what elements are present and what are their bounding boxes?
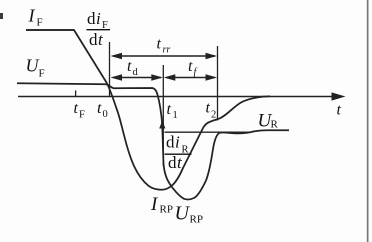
svg-text:t: t <box>74 100 79 117</box>
boundary line at t0 <box>109 42 111 96</box>
svg-text:1: 1 <box>173 110 178 121</box>
UR level line <box>165 131 250 133</box>
svg-text:d: d <box>87 9 96 28</box>
fraction diF/dt <box>87 9 111 49</box>
svg-text:RP: RP <box>190 214 203 226</box>
svg-text:RP: RP <box>160 204 173 216</box>
svg-text:d: d <box>168 153 177 172</box>
svg-text:d: d <box>166 133 175 152</box>
current waveform <box>26 30 270 190</box>
svg-text:F: F <box>39 68 45 80</box>
svg-text:i: i <box>96 9 101 28</box>
time axis <box>18 96 334 98</box>
boundary line at t2 <box>217 46 219 121</box>
td dimension arrow <box>113 77 161 79</box>
svg-text:U: U <box>175 203 191 225</box>
svg-text:t: t <box>188 58 193 75</box>
svg-text:U: U <box>26 56 40 76</box>
svg-text:rr: rr <box>163 45 171 56</box>
voltage waveform <box>17 83 289 199</box>
svg-text:2: 2 <box>211 110 216 121</box>
right page border line <box>367 0 369 242</box>
svg-text:t: t <box>167 101 172 118</box>
svg-text:t: t <box>127 58 132 75</box>
svg-text:R: R <box>271 119 279 131</box>
trr dimension arrow <box>113 55 215 57</box>
boundary line at t1 <box>162 65 164 166</box>
svg-text:I: I <box>28 6 36 26</box>
svg-text:t: t <box>206 100 211 117</box>
svg-text:0: 0 <box>103 109 108 120</box>
svg-text:t: t <box>97 100 102 117</box>
left edge printing mark <box>0 13 3 19</box>
svg-text:i: i <box>175 133 180 152</box>
svg-text:d: d <box>89 30 98 49</box>
IF level line <box>26 29 74 31</box>
svg-text:F: F <box>37 17 43 29</box>
svg-text:t: t <box>157 36 162 53</box>
up arrowhead on t1 line <box>159 121 165 129</box>
svg-text:t: t <box>337 102 342 119</box>
tick tF <box>75 91 77 97</box>
axis arrowhead <box>332 92 346 100</box>
svg-text:F: F <box>79 110 85 121</box>
svg-text:d: d <box>133 67 139 78</box>
tf dimension arrow <box>166 77 215 79</box>
fraction diR/dt <box>165 133 192 173</box>
